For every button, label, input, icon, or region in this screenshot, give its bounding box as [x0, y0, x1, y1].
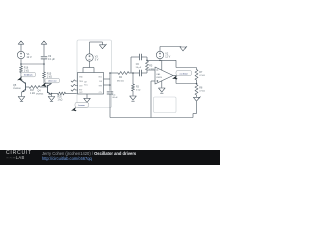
supply rail: [147, 60, 176, 62]
svg-text:12 V: 12 V: [165, 56, 170, 59]
wire R15 to Q4: [44, 78, 52, 86]
svg-text:oscillator: oscillator: [180, 72, 189, 75]
wire to R4: [110, 72, 118, 74]
svg-text:OUT: OUT: [79, 92, 83, 94]
IC U2 bottom pin: [86, 94, 88, 98]
svg-text:C6: C6: [136, 64, 140, 66]
opamp output wire: [173, 75, 176, 77]
wire output down: [176, 76, 197, 84]
capacitor C4: [107, 92, 113, 94]
CircuitLab logo: [6, 151, 32, 161]
node D: [109, 72, 111, 74]
power flag F1: [18, 41, 24, 51]
selection box around U2: [77, 40, 112, 108]
resistor R4: [118, 72, 129, 75]
resistor R20: [58, 92, 66, 95]
svg-text:TRIG: TRIG: [79, 81, 84, 83]
svg-text:R4: R4: [119, 77, 123, 79]
ground G3: [84, 98, 91, 103]
wire V2 top: [160, 47, 181, 52]
voltage source V1: [17, 51, 24, 58]
wire Q4 out: [51, 93, 58, 94]
resistor R5: [146, 61, 149, 70]
voltage source V3: [86, 54, 93, 61]
svg-text:12 V: 12 V: [27, 56, 32, 59]
svg-text:feedback: feedback: [24, 75, 34, 77]
ground G5: [159, 88, 166, 93]
voltage source V2: [156, 51, 163, 58]
svg-text:1 kΩ: 1 kΩ: [58, 100, 63, 102]
wire V1 to node: [20, 59, 22, 64]
node F: [146, 60, 148, 62]
svg-text:OUT: OUT: [79, 86, 83, 88]
svg-text:47 kΩ: 47 kΩ: [199, 91, 205, 93]
svg-text:56 pF: 56 pF: [136, 67, 142, 69]
wire caps to R5: [142, 57, 148, 73]
opamp V- pin: [161, 81, 163, 88]
svg-text:R20: R20: [58, 97, 63, 99]
tooltip label fb1: [17, 72, 35, 81]
resistor R8: [195, 85, 198, 98]
wire top branch: [131, 57, 139, 73]
label R7: [199, 72, 205, 77]
op-amp OA1: [155, 67, 173, 84]
selection box around G5: [154, 97, 177, 113]
svg-text:TLC: TLC: [84, 85, 88, 87]
footer bar: [0, 150, 220, 165]
transistor Q5: [21, 80, 26, 92]
svg-text:5 V: 5 V: [95, 59, 99, 62]
power flag F2: [41, 41, 47, 56]
wire right rail lower: [109, 94, 111, 118]
tooltip label oscillator: [172, 71, 191, 80]
resistor R7: [195, 68, 198, 84]
label R5: [149, 65, 154, 70]
svg-text:Q5: Q5: [13, 84, 17, 87]
wire below flag: [196, 102, 198, 114]
ground G2: [48, 97, 55, 102]
svg-text:1 kΩ: 1 kΩ: [30, 93, 35, 95]
label R15: [47, 73, 52, 79]
label V2 12V: [165, 53, 170, 59]
staircase rail right: [176, 60, 197, 67]
svg-text:68 nF: 68 nF: [113, 97, 119, 99]
svg-text:RST: RST: [79, 90, 82, 92]
node C: [109, 84, 111, 86]
svg-text:drive out: drive out: [48, 80, 57, 83]
svg-text:LM324: LM324: [156, 77, 162, 79]
capacitor C6: [139, 54, 141, 60]
svg-text:R3: R3: [136, 87, 140, 89]
svg-text:2N3904: 2N3904: [36, 94, 44, 96]
label Q5 2N3906: [13, 84, 21, 90]
wire V3 to U2: [83, 61, 94, 72]
svg-text:Q4: Q4: [38, 91, 42, 93]
bottom feedback wire: [110, 114, 197, 118]
wire Q5 base: [26, 86, 30, 88]
svg-text:CTL: CTL: [99, 92, 102, 94]
resistor R17: [29, 86, 40, 89]
wire rail A-B: [21, 63, 44, 65]
wire R20 to U2: [66, 93, 78, 95]
footer text: [42, 151, 136, 162]
opamp plus input wire: [151, 81, 155, 118]
svg-text:R7: R7: [199, 72, 203, 74]
svg-text:0.1 μF: 0.1 μF: [48, 58, 55, 61]
label R3: [136, 87, 141, 92]
label Q4 2N3904: [36, 91, 44, 96]
transistor Q4: [48, 83, 52, 95]
node flag F4: [180, 46, 187, 51]
svg-text:5 kΩ: 5 kΩ: [136, 90, 141, 92]
svg-text:R8: R8: [199, 88, 203, 90]
node flag F5: [193, 97, 200, 102]
label OA1 LM324: [156, 73, 162, 79]
wire V3 top: [90, 42, 103, 54]
svg-text:680 kΩ: 680 kΩ: [117, 80, 124, 82]
resistor R16: [20, 64, 23, 80]
ground G4: [130, 91, 137, 101]
svg-text:C4: C4: [113, 94, 117, 96]
ground G1: [18, 97, 25, 102]
wire R5 to opamp minus: [147, 69, 155, 71]
svg-text:47 kΩ: 47 kΩ: [199, 75, 205, 77]
tooltip label buzzer: [71, 103, 88, 112]
tooltip label fb2: [41, 78, 59, 87]
wire R17 to Q4 base: [40, 86, 48, 88]
label R16: [24, 67, 29, 73]
opamp minus sign: [156, 69, 158, 71]
capacitor C5: [139, 70, 141, 76]
resistor R15: [43, 64, 46, 78]
label R17: [30, 90, 35, 95]
label R8: [199, 88, 205, 93]
label C4: [113, 94, 119, 99]
label R4: [117, 77, 124, 82]
opamp V+ pin: [161, 60, 163, 70]
svg-text:OA1: OA1: [156, 73, 161, 76]
label V1 12V: [27, 53, 32, 59]
svg-text:buzzer: buzzer: [79, 105, 86, 107]
node junction B: [43, 63, 45, 65]
IC U2 pin labels: [79, 77, 103, 95]
svg-text:R17: R17: [30, 90, 35, 92]
opamp plus sign: [156, 80, 158, 82]
node G: [196, 83, 198, 85]
capacitor C9: [41, 57, 47, 64]
node flag F3: [99, 44, 106, 49]
label C6: [136, 64, 142, 69]
label R20: [58, 97, 63, 102]
wire right rail upper: [109, 73, 111, 91]
IC U2 right pins: [104, 79, 111, 85]
IC U2 left pin stubs: [71, 80, 77, 91]
label C9: [48, 55, 55, 61]
svg-text:R5: R5: [149, 65, 153, 67]
node junction A: [20, 63, 22, 65]
wire R4 to node E: [129, 72, 139, 74]
wire Q5 emitter: [21, 92, 23, 96]
svg-text:2N3906: 2N3906: [13, 88, 21, 90]
IC U2 555 box: [78, 73, 104, 95]
resistor R3: [132, 73, 135, 91]
wire Q4 emitter: [51, 95, 53, 97]
label V3 5V: [95, 56, 99, 62]
